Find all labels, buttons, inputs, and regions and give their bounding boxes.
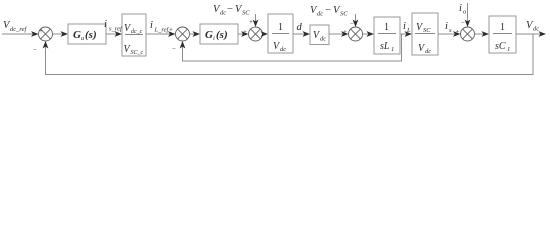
svg-text:SC: SC: [340, 11, 348, 18]
wire inner feedback iL to J2: [180, 34, 402, 61]
svg-text:d: d: [297, 22, 303, 33]
wire J4 to 1/sL1: [363, 31, 375, 37]
svg-text:1: 1: [391, 46, 394, 53]
wire J1 to Gu: [53, 31, 69, 37]
block 1/sL1 inductor: [374, 17, 400, 54]
svg-text:dc: dc: [320, 36, 326, 43]
wire Gu to ratio block, label is_ref: [104, 19, 123, 37]
wire 1/sL1 to VSC/Vdc, label iL: [400, 21, 412, 37]
svg-text:dc: dc: [425, 48, 431, 55]
svg-text:dc: dc: [317, 11, 323, 18]
wire Vdc block to J4: [329, 31, 349, 37]
svg-text:L: L: [406, 27, 411, 34]
svg-text:SC_c: SC_c: [131, 50, 144, 56]
svg-text:−: −: [350, 20, 354, 28]
svg-text:i: i: [150, 20, 153, 31]
svg-text:+: +: [456, 28, 460, 36]
svg-text:−: −: [172, 45, 176, 53]
svg-text:−: −: [33, 46, 37, 54]
svg-text:1: 1: [384, 22, 389, 33]
svg-text:+: +: [39, 27, 43, 35]
block 1/Vdc: [268, 14, 293, 53]
wire feedforward 1 down into J3: [249, 14, 258, 27]
summing junction 5: [456, 27, 475, 41]
svg-text:dc_ref: dc_ref: [10, 26, 28, 33]
svg-text:dc: dc: [533, 26, 539, 33]
node label Vdc - VSC feedforward 2: [310, 5, 348, 18]
svg-text:+: +: [343, 28, 347, 36]
svg-text:dc: dc: [220, 10, 226, 17]
svg-text:+: +: [243, 28, 247, 36]
wire J3 to 1/Vdc: [261, 31, 269, 37]
svg-text:i: i: [213, 35, 215, 42]
summing junction 3: [243, 27, 263, 41]
svg-text:dc: dc: [280, 46, 286, 53]
svg-text:i: i: [104, 19, 107, 30]
block 1/sC1 capacitor: [489, 16, 516, 53]
wire input to summing junction 1: [2, 31, 39, 37]
wire output, label Vdc: [516, 20, 546, 37]
svg-text:sL: sL: [380, 41, 390, 52]
block Vdc_c/VSC_c ratio: [122, 14, 146, 56]
wire io down into J5: [461, 3, 470, 27]
svg-text:−: −: [325, 5, 331, 16]
svg-text:(s): (s): [216, 29, 228, 41]
wire 1/Vdc to Vdc block, label d: [293, 22, 310, 37]
svg-text:i: i: [403, 21, 406, 32]
svg-text:G: G: [73, 29, 81, 41]
wire feedforward 2 down into J4: [350, 14, 358, 28]
svg-text:1: 1: [500, 22, 505, 33]
svg-text:sC: sC: [495, 41, 506, 52]
svg-text:G: G: [205, 29, 213, 41]
node label Vdc - VSC feedforward 1: [213, 4, 250, 17]
svg-text:1: 1: [507, 46, 510, 53]
svg-text:i: i: [445, 21, 448, 32]
block Vdc gain: [310, 25, 329, 45]
wire outer feedback Vdc to J1: [43, 34, 533, 75]
svg-text:1: 1: [278, 22, 283, 33]
svg-text:i: i: [459, 3, 462, 14]
svg-text:+: +: [169, 26, 173, 34]
wire J5 to 1/sC1: [475, 31, 490, 37]
svg-text:(s): (s): [85, 29, 97, 41]
summing junction 4: [343, 27, 363, 41]
svg-text:SC: SC: [242, 10, 250, 17]
svg-text:−: −: [227, 4, 233, 15]
wire J2 to Gi: [190, 31, 201, 37]
block Gu(s) voltage controller: [68, 24, 106, 44]
block VSC/Vdc ratio: [412, 13, 438, 55]
node Vdc_ref input label: [3, 20, 28, 33]
wire ratio block to J2, label iL_ref: [146, 20, 176, 37]
svg-text:SC: SC: [423, 27, 431, 34]
wire VSC/Vdc to J5, label is: [438, 21, 461, 37]
summing junction 2: [169, 26, 190, 54]
svg-text:s_ref: s_ref: [109, 26, 123, 33]
summing junction 1: [33, 27, 53, 54]
svg-text:dc_c: dc_c: [131, 29, 143, 35]
svg-text:+: +: [249, 18, 253, 26]
node label io load current: [459, 3, 467, 16]
svg-text:L_ref: L_ref: [154, 27, 170, 34]
svg-text:−: −: [461, 19, 465, 27]
wire Gi to J3: [238, 31, 249, 37]
block Gi(s) current controller: [200, 24, 238, 44]
